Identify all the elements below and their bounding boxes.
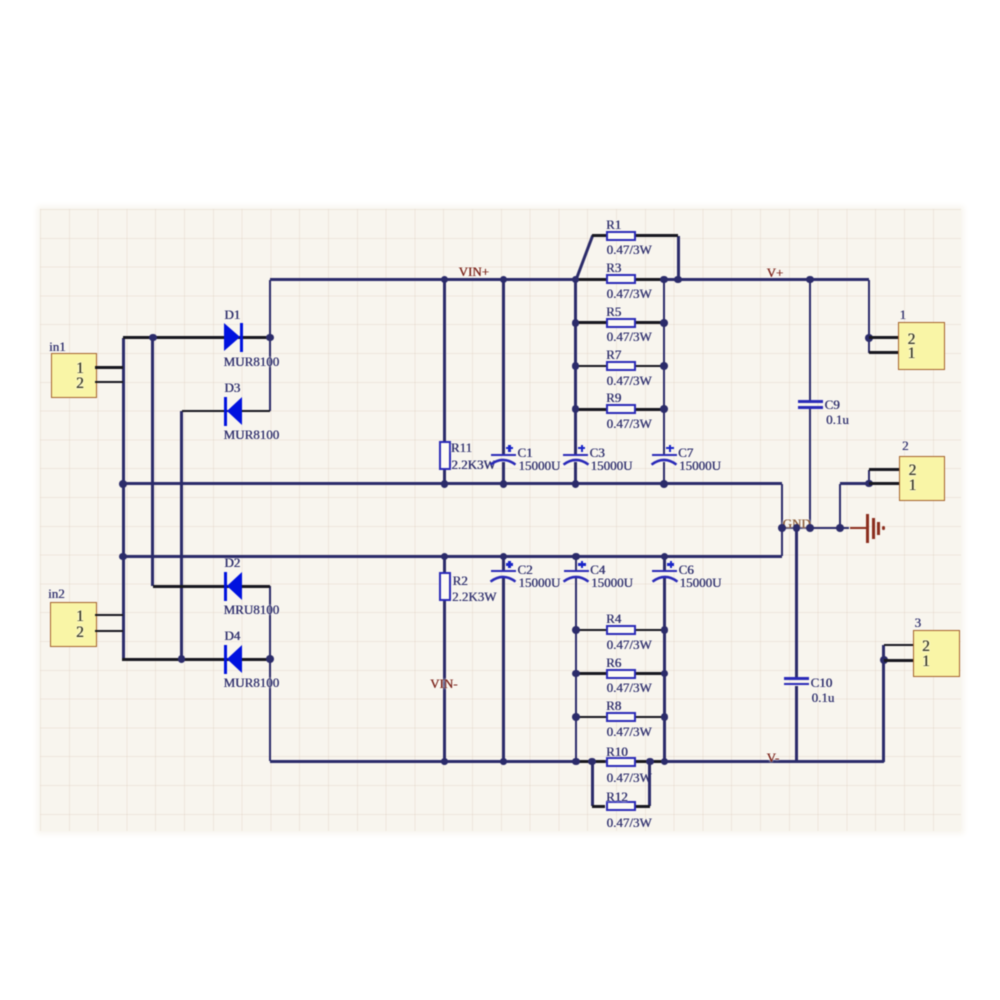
- capacitor C2: [491, 570, 516, 572]
- label R7: [606, 348, 621, 361]
- junction V2 tap: [149, 334, 157, 342]
- label D1: [224, 308, 240, 321]
- wire bank left vertical: [574, 280, 577, 456]
- net label GND: [783, 517, 811, 530]
- resistor R3: [576, 278, 606, 281]
- pin 1 of 2: [909, 478, 917, 494]
- wire connector2 link: [840, 482, 869, 485]
- designator in1: [49, 340, 66, 353]
- wire in2 pin1 stub: [95, 614, 123, 617]
- value R7 0.47/3W: [607, 374, 652, 387]
- connector 1: [898, 322, 945, 370]
- resistor R10: [577, 760, 606, 763]
- label R4: [606, 612, 621, 625]
- wire V4 top-rail down to D3: [269, 280, 272, 412]
- wire in1 pin1 stub: [95, 366, 123, 369]
- wire bracket rail A to rail B: [781, 484, 784, 557]
- wire connector2 pin1 stub: [869, 482, 899, 485]
- plus mark C3: [578, 447, 586, 449]
- pin 2 of 3: [922, 639, 930, 655]
- wire D4 row: [122, 658, 270, 661]
- wire R12 right vertical: [648, 762, 651, 807]
- value D1 MUR8100: [224, 355, 280, 368]
- capacitor C6: [652, 570, 677, 572]
- value C4 15000U: [591, 576, 633, 589]
- junction bottom bank right: [661, 626, 669, 634]
- value C2 15000U: [518, 576, 560, 589]
- label C10: [811, 676, 833, 689]
- plus mark C4: [578, 563, 586, 565]
- junction bank left: [572, 276, 580, 284]
- value C1 15000U: [518, 459, 560, 472]
- resistor R7: [576, 365, 606, 368]
- capacitor C3: [563, 454, 588, 456]
- wire V2 D1-row to D2-row: [151, 338, 154, 587]
- designator in2: [48, 587, 65, 600]
- resistor R5: [576, 321, 606, 324]
- resistor R8: [576, 716, 606, 719]
- junction bottom bank right: [661, 713, 669, 721]
- wire R1 diagonal lead: [574, 235, 593, 280]
- pin 2 of 1: [908, 332, 916, 348]
- wire rail A: [123, 482, 782, 485]
- net label V-: [767, 751, 780, 764]
- capacitor C4: [564, 570, 589, 572]
- ground symbol: [850, 527, 867, 530]
- junction D1 cathode: [266, 334, 274, 342]
- resistor R1: [592, 234, 606, 237]
- wire in2 pin2 stub: [95, 630, 123, 633]
- label R9: [606, 391, 621, 404]
- junction V- rail: [661, 758, 669, 766]
- value R3 0.47/3W: [607, 287, 652, 300]
- wire connector2 pin2 stub: [869, 468, 899, 471]
- junction V- rail: [588, 758, 596, 766]
- junction C10 GND: [793, 524, 801, 532]
- junction connector3 pin1: [880, 656, 888, 664]
- value C7 15000U: [679, 459, 721, 472]
- label D3: [224, 381, 240, 394]
- wire D2 row: [153, 585, 270, 588]
- wire R12 left vertical: [591, 762, 594, 807]
- junction bottom bank left: [572, 713, 580, 721]
- junction bottom bank right: [661, 553, 669, 561]
- junction R2 top: [441, 553, 449, 561]
- junction C9 GND: [806, 524, 814, 532]
- capacitor C1: [491, 454, 516, 456]
- plus mark C1: [506, 447, 514, 449]
- diode D1 MUR8100: [224, 323, 240, 351]
- junction V- rail: [572, 758, 580, 766]
- wire rail B: [122, 555, 782, 558]
- junction bank left: [572, 362, 580, 370]
- junction D4 row V3: [178, 655, 186, 663]
- plus mark C6: [667, 563, 675, 565]
- junction bottom bank left: [572, 626, 580, 634]
- pin 2 of in1: [76, 376, 84, 392]
- value D3 MUR8100: [224, 428, 280, 441]
- junction connector2 pin1: [865, 480, 873, 488]
- value R11 2.2K3W: [451, 458, 495, 471]
- value C3 15000U: [591, 459, 633, 472]
- value R1 0.47/3W: [607, 243, 652, 256]
- junction bank right: [660, 405, 668, 413]
- pin 2 of 2: [909, 463, 917, 479]
- resistor R9: [576, 408, 606, 411]
- junction V1 rail A: [119, 480, 127, 488]
- junction bottom bank left: [572, 553, 580, 561]
- wire D1 row: [123, 336, 270, 339]
- resistor R12: [592, 805, 605, 808]
- resistor R2 vertical wire: [443, 557, 446, 762]
- label C2: [517, 563, 532, 576]
- junction C1 bottom: [500, 480, 508, 488]
- junction D4 cathode: [266, 655, 274, 663]
- junction connector1 pin2: [865, 334, 873, 342]
- designator 1: [900, 308, 907, 321]
- resistor R2: [439, 572, 451, 601]
- wire connector2 up: [868, 470, 871, 484]
- resistor R4: [576, 629, 606, 632]
- junction C9 top: [806, 276, 814, 284]
- junction bank right: [660, 276, 668, 284]
- value C6 15000U: [680, 576, 722, 589]
- label C9: [825, 398, 840, 411]
- junction bracket GND: [778, 524, 786, 532]
- net label VIN+: [459, 265, 489, 278]
- junction bank right: [660, 319, 668, 327]
- label C1: [517, 446, 532, 459]
- pin 1 of 1: [908, 346, 916, 362]
- junction R11 bottom: [441, 480, 449, 488]
- plus mark C7: [666, 447, 674, 449]
- wire bottom bank left vertical: [575, 557, 578, 572]
- pin 1 of in2: [76, 609, 84, 625]
- plus mark C2: [506, 563, 514, 565]
- value D2 MRU8100: [224, 603, 280, 616]
- wire GND rail: [782, 527, 849, 530]
- junction V- rail: [500, 758, 508, 766]
- junction bank right: [660, 480, 668, 488]
- junction bank left: [572, 319, 580, 327]
- junction bank left: [572, 480, 580, 488]
- pin 1 of in1: [76, 361, 84, 377]
- resistor R6: [576, 672, 606, 675]
- wire C10 column: [795, 528, 798, 678]
- label R1: [606, 218, 621, 231]
- connector 3: [913, 630, 960, 677]
- wire in1 pin2 stub: [95, 381, 123, 384]
- junction C2 top: [500, 553, 508, 561]
- wire V1 in1/in2 vertical: [122, 338, 125, 660]
- label D4: [224, 629, 240, 642]
- junction bank left: [572, 405, 580, 413]
- junction C1 top: [500, 276, 508, 284]
- value R6 0.47/3W: [607, 681, 652, 694]
- label R5: [606, 305, 621, 318]
- net label V+: [767, 266, 784, 279]
- value C10 0.1u: [812, 691, 835, 704]
- wire connector3 pin2 stub: [884, 644, 913, 647]
- value C9 0.1u: [826, 413, 849, 426]
- wire V3 D3-row to D4-row: [180, 411, 183, 659]
- designator 2: [902, 439, 909, 452]
- wire bank right vertical: [663, 280, 666, 456]
- value R5 0.47/3W: [607, 330, 652, 343]
- pin 1 of 3: [922, 654, 930, 670]
- label C6: [679, 563, 694, 576]
- value D4 MUR8100: [224, 676, 280, 689]
- label R6: [606, 656, 621, 669]
- wire C9 column: [809, 280, 812, 403]
- diode D2 MRU8100: [224, 572, 227, 601]
- resistor R11 vertical wire: [443, 280, 446, 484]
- value R9 0.47/3W: [607, 417, 652, 430]
- diode D3 MUR8100: [224, 397, 227, 426]
- junction R1 right: [674, 276, 682, 284]
- connector in2: [50, 602, 97, 647]
- wire C1 column: [502, 280, 505, 456]
- value R2 2.2K3W: [452, 590, 496, 603]
- designator 3: [915, 616, 922, 629]
- wire R1 right lead vertical: [677, 236, 680, 280]
- capacitor C10: [784, 677, 809, 680]
- wire V- rail: [270, 760, 884, 763]
- wire top rail VIN+ to V+: [270, 278, 869, 281]
- value R10 0.47/3W: [607, 771, 652, 784]
- label C4: [590, 563, 605, 576]
- wire connector1 pin2 stub: [869, 336, 898, 339]
- net label VIN-: [430, 677, 457, 690]
- label R8: [606, 699, 621, 712]
- wire connector1 pin1 stub: [869, 351, 898, 354]
- wire V- riser to connector 3: [882, 645, 885, 762]
- label R11: [451, 441, 472, 454]
- connector in1: [51, 353, 97, 398]
- diode D4 MUR8100: [224, 645, 227, 674]
- wire V+ drop to connector 1: [868, 280, 871, 353]
- pin 2 of in2: [76, 625, 84, 641]
- junction R2 bottom: [441, 758, 449, 766]
- label D2: [224, 556, 240, 569]
- label C3: [590, 446, 605, 459]
- connector 2: [899, 456, 945, 501]
- label R2: [453, 574, 468, 587]
- junction V- rail: [441, 758, 449, 766]
- value R8 0.47/3W: [607, 725, 652, 738]
- junction bottom bank left: [572, 670, 580, 678]
- junction R11 top: [441, 276, 449, 284]
- junction V- rail: [646, 758, 654, 766]
- label C7: [678, 446, 693, 459]
- capacitor C9: [798, 400, 823, 403]
- wire connector2 riser: [839, 484, 842, 529]
- value R12 0.47/3W: [607, 816, 652, 829]
- wire C2 column: [502, 557, 505, 572]
- label R3: [606, 261, 621, 274]
- wire connector3 pin1 stub: [884, 659, 913, 662]
- label R10: [606, 745, 628, 758]
- junction conn2 GND: [836, 524, 844, 532]
- wire D3 row: [182, 410, 271, 413]
- junction V1 rail B: [119, 553, 127, 561]
- label R12: [606, 790, 628, 803]
- schematic paper background with grid: [40, 209, 961, 831]
- resistor R11: [439, 441, 451, 470]
- value R4 0.47/3W: [607, 638, 652, 651]
- wire bottom bank right vertical: [663, 557, 666, 572]
- wire V5 D2-row to V- rail: [269, 586, 272, 761]
- junction C2 bottom: [500, 758, 508, 766]
- junction bottom bank right: [661, 670, 669, 678]
- capacitor C7: [652, 454, 677, 456]
- junction bank right: [660, 362, 668, 370]
